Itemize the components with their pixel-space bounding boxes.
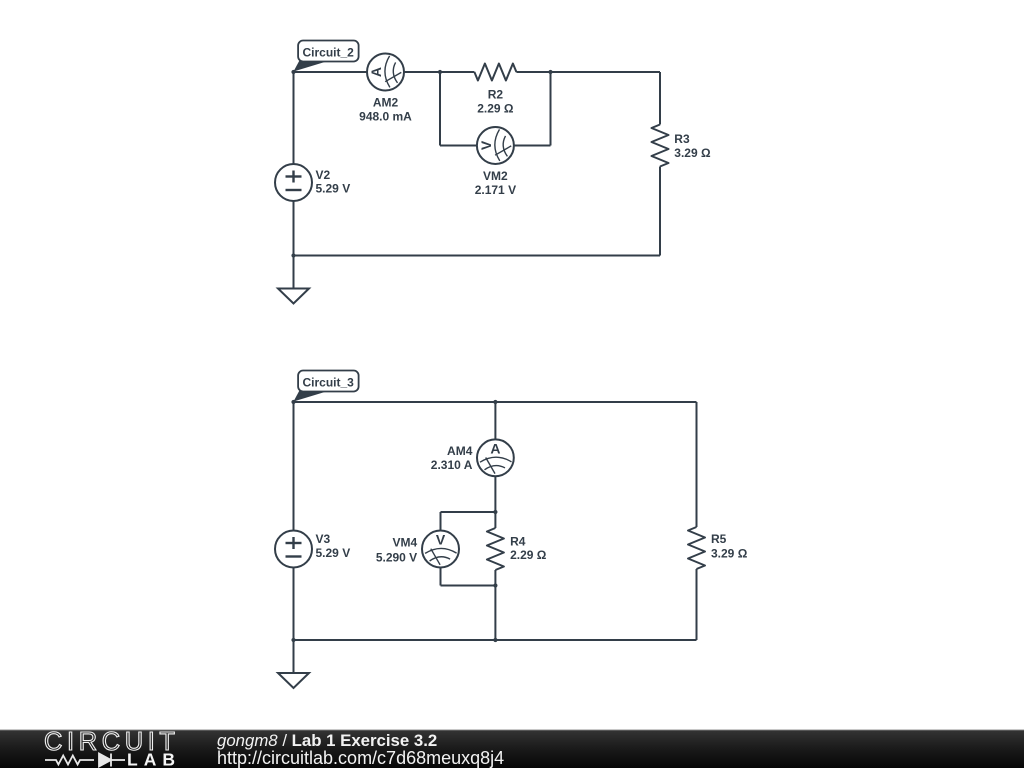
wire — [696, 569, 698, 640]
svg-text:Circuit_3: Circuit_3 — [303, 375, 355, 389]
voltmeter VM4 — [422, 531, 459, 568]
svg-text:948.0 mA: 948.0 mA — [359, 109, 412, 123]
wire — [441, 585, 496, 587]
svg-text:gongm8 / Lab 1 Exercise 3.2: gongm8 / Lab 1 Exercise 3.2 — [217, 731, 437, 750]
svg-text:AM2: AM2 — [373, 96, 399, 110]
node flag Circuit_2 — [294, 41, 359, 72]
resistor R3 — [652, 125, 669, 167]
ammeter AM2 — [367, 54, 404, 91]
resistor R4 — [487, 528, 504, 570]
svg-text:R5: R5 — [711, 532, 727, 546]
wire — [440, 71, 474, 73]
svg-text:VM2: VM2 — [483, 169, 508, 183]
svg-text:5.29 V: 5.29 V — [316, 182, 351, 196]
node junction — [291, 400, 295, 404]
wire — [494, 512, 496, 528]
wire — [441, 511, 496, 513]
svg-text:V2: V2 — [316, 168, 331, 182]
node junction — [438, 70, 442, 74]
node junction — [548, 70, 552, 74]
wire — [293, 72, 295, 164]
wire — [294, 639, 697, 641]
wire — [494, 402, 496, 439]
wire — [440, 568, 442, 586]
wire — [696, 402, 698, 527]
wire — [293, 568, 295, 641]
wire — [404, 71, 440, 73]
node junction — [493, 638, 497, 642]
svg-text:A: A — [368, 67, 384, 77]
node junction — [493, 400, 497, 404]
svg-text:AM4: AM4 — [447, 444, 473, 458]
ammeter AM4 — [477, 439, 514, 476]
wire — [659, 167, 661, 256]
node junction — [291, 638, 295, 642]
voltmeter VM2 — [477, 127, 514, 164]
wire — [550, 72, 552, 146]
svg-text:R2: R2 — [488, 88, 504, 102]
wire — [293, 402, 295, 531]
wire — [551, 71, 661, 73]
svg-text:V: V — [436, 532, 446, 548]
wire — [514, 145, 551, 147]
svg-text:3.29 Ω: 3.29 Ω — [711, 546, 748, 560]
wire — [659, 72, 661, 125]
node junction — [291, 70, 295, 74]
svg-text:3.29 Ω: 3.29 Ω — [674, 146, 711, 160]
voltage source V3 — [275, 531, 312, 568]
ground — [278, 256, 309, 304]
node junction — [291, 253, 295, 257]
svg-text:2.310 A: 2.310 A — [431, 458, 473, 472]
svg-text:V: V — [478, 140, 494, 150]
svg-text:5.29 V: 5.29 V — [316, 546, 351, 560]
wire — [494, 570, 496, 586]
wire — [294, 71, 368, 73]
wire — [516, 71, 550, 73]
wire — [293, 201, 295, 256]
ground — [278, 640, 309, 688]
svg-text:A: A — [490, 440, 500, 456]
svg-text:R3: R3 — [674, 132, 690, 146]
svg-text:VM4: VM4 — [393, 536, 418, 550]
svg-text:V3: V3 — [316, 532, 331, 546]
svg-text:R4: R4 — [510, 535, 526, 549]
node junction — [493, 583, 497, 587]
svg-text:LAB: LAB — [127, 750, 181, 768]
wire — [440, 512, 442, 531]
footer bar — [0, 729, 1024, 730]
wire — [494, 586, 496, 641]
wire — [494, 476, 496, 512]
voltage source V2 — [275, 164, 312, 201]
svg-text:http://circuitlab.com/c7d68meu: http://circuitlab.com/c7d68meuxq8j4 — [217, 748, 504, 768]
wire — [294, 401, 697, 403]
svg-text:2.29 Ω: 2.29 Ω — [477, 101, 514, 115]
svg-text:5.290 V: 5.290 V — [376, 550, 417, 564]
resistor R5 — [688, 527, 705, 569]
node flag Circuit_3 — [294, 371, 359, 402]
svg-text:2.171 V: 2.171 V — [475, 183, 516, 197]
logo resistor-diode glyph — [45, 754, 125, 767]
svg-text:2.29 Ω: 2.29 Ω — [510, 548, 547, 562]
node junction — [493, 510, 497, 514]
wire — [439, 72, 441, 146]
resistor R2 — [474, 64, 516, 81]
wire — [440, 145, 477, 147]
wire — [294, 255, 661, 257]
svg-text:Circuit_2: Circuit_2 — [303, 45, 355, 59]
